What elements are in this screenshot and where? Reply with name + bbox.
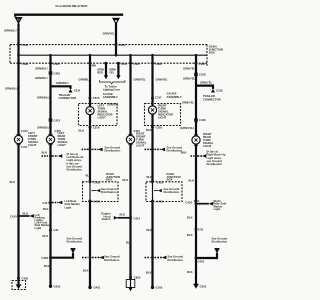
svg-text:C314: C314 (74, 88, 81, 92)
svg-text:BLK: BLK (181, 151, 187, 155)
svg-text:C486: C486 (89, 64, 96, 68)
svg-text:LIGHT: LIGHT (98, 116, 107, 120)
svg-text:Distribution: Distribution (104, 258, 120, 262)
svg-text:BLK: BLK (120, 212, 126, 216)
svg-text:C316: C316 (93, 126, 100, 130)
svg-text:(GRN/YEL): (GRN/YEL) (180, 126, 194, 130)
svg-text:BLK: BLK (10, 180, 16, 184)
svg-text:BLK: BLK (86, 174, 92, 178)
svg-text:C414: C414 (134, 216, 141, 220)
svg-text:U: U (17, 18, 19, 22)
svg-text:BLK: BLK (146, 128, 152, 132)
svg-text:From DASH RELAY BOX: From DASH RELAY BOX (56, 4, 88, 8)
svg-text:GRN/YEL: GRN/YEL (103, 32, 116, 36)
svg-text:C319: C319 (156, 126, 163, 130)
svg-text:CONNECTOR: CONNECTOR (203, 97, 221, 101)
svg-text:LIGHT: LIGHT (58, 143, 67, 147)
svg-text:BOX: BOX (106, 178, 112, 182)
svg-text:C483: C483 (133, 62, 140, 66)
svg-text:C955: C955 (134, 276, 141, 280)
svg-text:RED: RED (97, 71, 103, 75)
svg-text:Distribution.: Distribution. (212, 240, 228, 244)
svg-text:LIGHT: LIGHT (28, 143, 37, 147)
svg-text:Light: Light (35, 226, 42, 230)
svg-text:C481: C481 (54, 71, 61, 75)
svg-text:C317: C317 (155, 96, 162, 100)
svg-text:GRN/YEL: GRN/YEL (182, 100, 195, 104)
svg-text:LIGHT: LIGHT (136, 144, 145, 148)
svg-text:C450: C450 (22, 277, 29, 281)
svg-text:GRN/BLU: GRN/BLU (5, 87, 18, 91)
svg-text:C486: C486 (53, 62, 60, 66)
svg-text:BLK: BLK (147, 228, 153, 232)
svg-text:BLK: BLK (42, 151, 48, 155)
svg-text:BLK: BLK (23, 211, 29, 215)
svg-text:C453: C453 (157, 199, 164, 203)
svg-text:Light: Light (65, 205, 72, 209)
svg-text:GRN/BLU: GRN/BLU (37, 96, 50, 100)
svg-text:Distribution.: Distribution. (101, 190, 117, 194)
svg-text:BLK: BLK (44, 264, 50, 268)
svg-text:G401: G401 (94, 286, 101, 290)
svg-text:GRN/BLU: GRN/BLU (37, 125, 50, 129)
svg-text:LIGHT: LIGHT (203, 144, 212, 148)
svg-text:BOX: BOX (167, 178, 173, 182)
svg-text:GRN/BLU: GRN/BLU (35, 67, 48, 71)
svg-text:C453: C453 (157, 180, 164, 184)
svg-text:C486: C486 (22, 62, 29, 66)
svg-text:BLK: BLK (79, 129, 85, 133)
svg-text:BLK: BLK (43, 207, 49, 211)
svg-text:GRN/BLU: GRN/BLU (56, 81, 69, 85)
svg-text:GRN/BLU: GRN/BLU (35, 76, 48, 80)
svg-text:ASSEMBLY: ASSEMBLY (167, 95, 182, 99)
svg-text:ASSEMBLY: ASSEMBLY (103, 95, 118, 99)
svg-text:C418: C418 (185, 200, 192, 204)
svg-text:G102: G102 (156, 286, 163, 290)
svg-text:BLK: BLK (147, 175, 153, 179)
svg-text:GRN/YEL: GRN/YEL (183, 67, 196, 71)
svg-text:C315: C315 (93, 96, 100, 100)
svg-text:C108: C108 (199, 73, 206, 77)
svg-text:G552: G552 (200, 284, 207, 288)
svg-text:BLK: BLK (83, 269, 89, 273)
svg-text:C417: C417 (42, 201, 49, 205)
svg-text:BLK: BLK (43, 234, 49, 238)
svg-text:BLK: BLK (126, 240, 132, 244)
svg-text:BLK: BLK (146, 271, 152, 275)
svg-text:GRN/YEL: GRN/YEL (183, 77, 196, 81)
svg-text:C401: C401 (119, 43, 126, 47)
svg-text:C452: C452 (94, 199, 101, 203)
svg-text:C456: C456 (41, 256, 48, 260)
svg-text:C452: C452 (94, 180, 101, 184)
svg-text:C415: C415 (21, 129, 28, 133)
svg-text:Light: Light (214, 207, 221, 211)
svg-text:C408: C408 (22, 43, 29, 47)
svg-text:Distribution.: Distribution. (67, 240, 83, 244)
svg-text:BLK: BLK (194, 199, 200, 203)
svg-text:Distribution.: Distribution. (105, 149, 121, 153)
svg-text:LIGHT: LIGHT (158, 116, 167, 120)
svg-text:C488: C488 (155, 62, 162, 66)
svg-text:BLK: BLK (187, 233, 193, 237)
svg-text:BOX: BOX (209, 50, 215, 54)
svg-text:C42: C42 (198, 227, 204, 231)
svg-text:BLK: BLK (189, 179, 195, 183)
svg-text:C417: C417 (21, 145, 28, 149)
svg-text:GRN/YEL: GRN/YEL (134, 77, 147, 81)
svg-text:GRN/YEL: GRN/YEL (156, 77, 169, 81)
svg-text:C485: C485 (199, 62, 206, 66)
svg-text:C318: C318 (216, 88, 223, 92)
svg-text:GRN/BLU: GRN/BLU (4, 29, 17, 33)
svg-text:Distribution.: Distribution. (67, 168, 83, 172)
svg-text:C418: C418 (198, 259, 205, 263)
svg-text:Lighting Conn.: Lighting Conn. (103, 87, 121, 91)
svg-text:GRN/BLU: GRN/BLU (79, 78, 92, 82)
svg-text:Distribution.: Distribution. (207, 162, 223, 166)
svg-text:C487: C487 (121, 62, 128, 66)
svg-text:Distribution.: Distribution. (164, 190, 180, 194)
svg-text:BLK: BLK (187, 270, 193, 274)
svg-text:BLK: BLK (123, 178, 129, 182)
svg-text:Distribution: Distribution (168, 258, 184, 262)
svg-text:GRN/YEL: GRN/YEL (200, 81, 213, 85)
svg-text:G202: G202 (54, 285, 61, 289)
svg-text:CONNECTOR: CONNECTOR (59, 96, 77, 100)
svg-text:C41: C41 (54, 228, 60, 232)
svg-text:C410: C410 (10, 214, 17, 218)
svg-text:GRN/YEL: GRN/YEL (107, 103, 120, 107)
svg-text:BLK: BLK (187, 216, 193, 220)
svg-text:C413: C413 (54, 118, 61, 122)
svg-text:YEL: YEL (109, 71, 115, 75)
svg-text:C418: C418 (199, 118, 206, 122)
svg-text:Switch: Switch (102, 217, 111, 221)
